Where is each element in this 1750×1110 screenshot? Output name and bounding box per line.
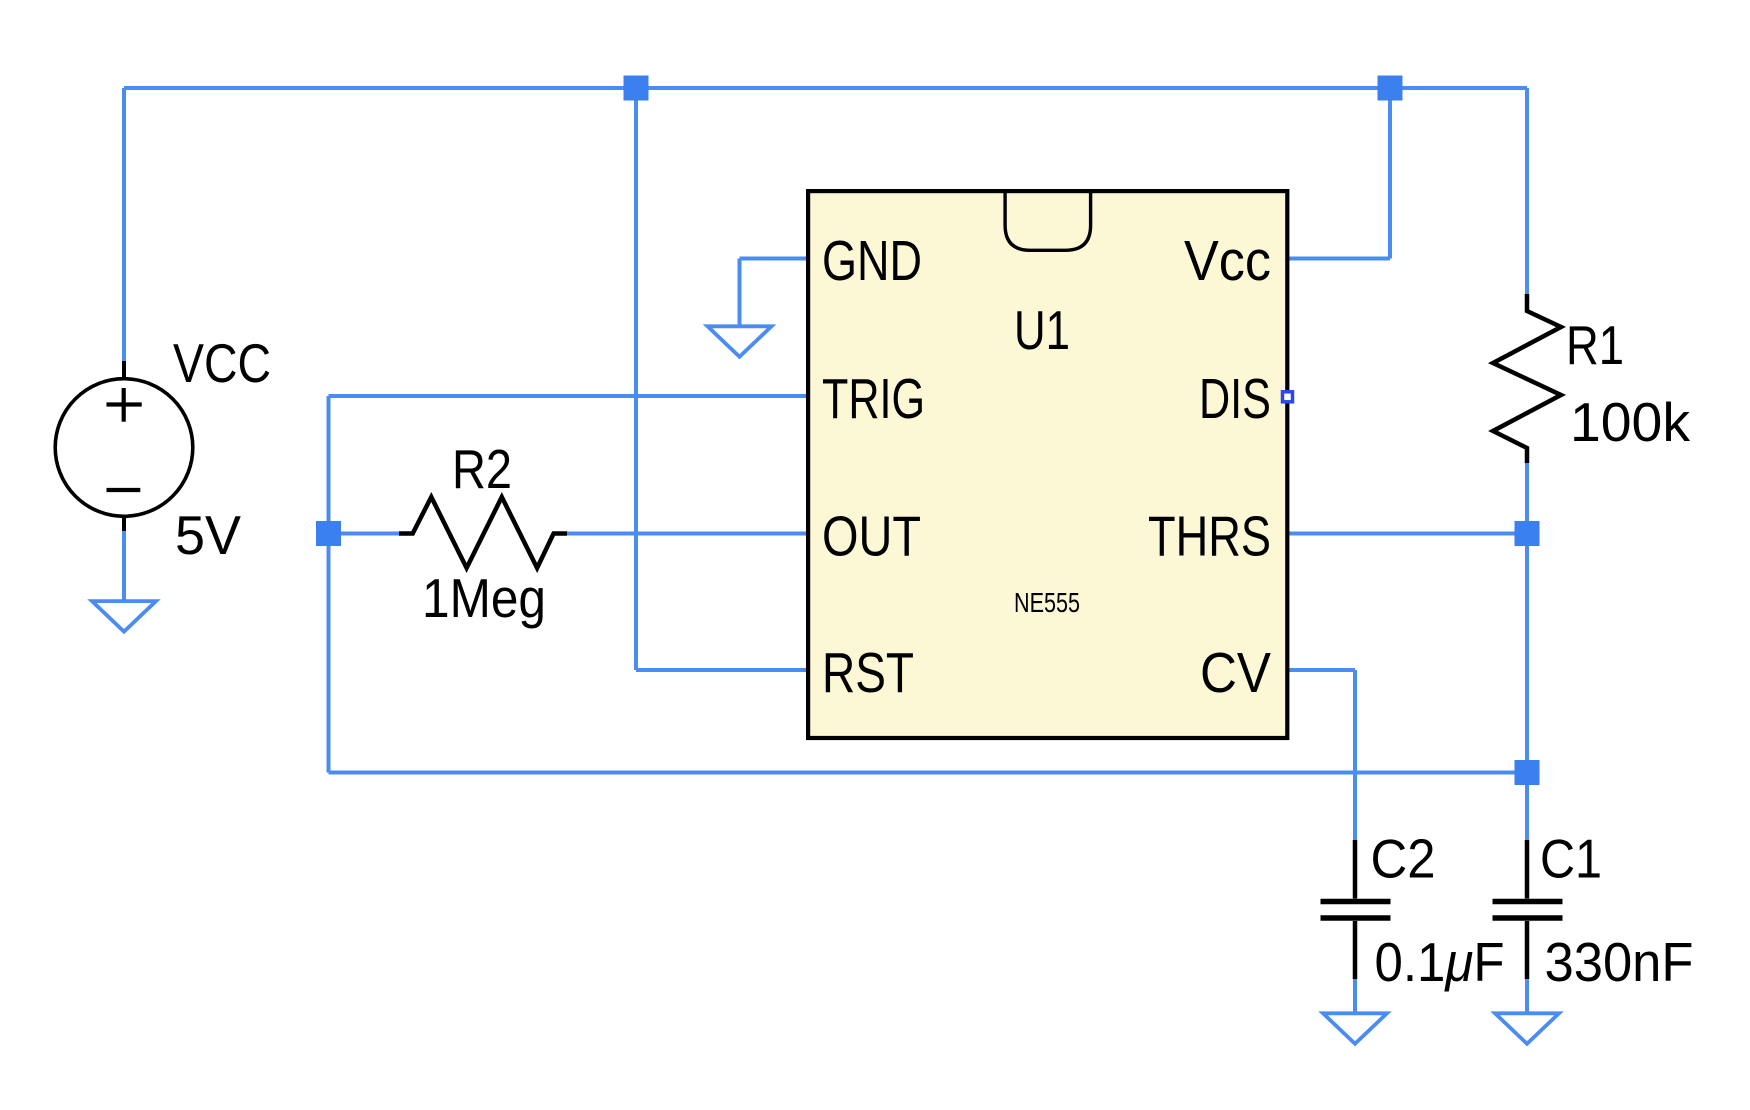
wire Vcc pin horizontal xyxy=(1289,257,1390,261)
svg-text:DIS: DIS xyxy=(1199,367,1271,431)
junction at bottom rail / C1 xyxy=(1515,760,1540,785)
junction at top rail x=636 xyxy=(624,76,649,101)
wire CV down to C2 xyxy=(1353,670,1357,840)
wire C1 to ground xyxy=(1525,978,1529,1012)
svg-text:THRS: THRS xyxy=(1148,505,1271,569)
wire CV pin horizontal xyxy=(1289,668,1355,672)
ground under C1 xyxy=(1495,1013,1559,1044)
svg-text:330nF: 330nF xyxy=(1545,931,1694,993)
wire VCC source bottom to ground xyxy=(122,531,126,600)
voltage source V1 circle xyxy=(55,379,193,517)
junction at top rail x=1390 xyxy=(1378,76,1403,101)
ground under C2 xyxy=(1323,1013,1387,1044)
wire VCC rail drop at x=636 xyxy=(634,88,638,670)
resistor R2 zigzag xyxy=(399,497,567,568)
capacitor C1 leads xyxy=(1525,840,1530,979)
IC notch xyxy=(1005,191,1091,250)
DIS port marker xyxy=(1283,392,1293,402)
wire VCC source top lead up xyxy=(122,88,126,361)
svg-text:Vcc: Vcc xyxy=(1184,229,1271,293)
capacitor C2 plates xyxy=(1321,902,1391,919)
svg-text:R2: R2 xyxy=(452,438,512,500)
wire GND drop to ground symbol xyxy=(738,259,742,325)
minus sign xyxy=(107,488,141,492)
resistor R1 zigzag xyxy=(1493,294,1561,463)
svg-text:1Meg: 1Meg xyxy=(422,567,546,629)
wire R1 bottom to THRS junction xyxy=(1525,463,1529,534)
wire junction to R2 left lead xyxy=(329,532,400,536)
svg-text:NE555: NE555 xyxy=(1014,587,1080,618)
wire Vcc pin up to top rail xyxy=(1388,88,1392,259)
svg-text:100k: 100k xyxy=(1570,391,1691,453)
wire THRS pin horizontal xyxy=(1289,532,1527,536)
junction at OUT/R2 xyxy=(316,521,341,546)
svg-text:5V: 5V xyxy=(175,504,241,566)
wire R2 right lead to OUT pin xyxy=(567,532,806,536)
plus sign xyxy=(107,388,142,422)
svg-text:VCC: VCC xyxy=(173,332,271,394)
wire top rail VCC net xyxy=(124,86,1527,90)
svg-text:GND: GND xyxy=(822,229,922,293)
svg-text:U1: U1 xyxy=(1014,299,1070,361)
capacitor C2 leads xyxy=(1353,840,1358,979)
wire THRS junction down to C1 xyxy=(1525,534,1529,841)
svg-text:C1: C1 xyxy=(1540,828,1602,890)
svg-text:RST: RST xyxy=(822,641,914,705)
wire TRIG pin horizontal xyxy=(329,394,807,398)
junction at THRS/R1 xyxy=(1515,521,1540,546)
ground under VCC source xyxy=(92,601,156,632)
capacitor C1 plates xyxy=(1493,902,1563,919)
wire to RST pin xyxy=(636,668,806,672)
wire bottom rail OUT net xyxy=(329,771,1528,775)
voltage source top lead xyxy=(122,361,126,379)
svg-text:C2: C2 xyxy=(1371,828,1436,890)
svg-text:R1: R1 xyxy=(1566,314,1624,376)
svg-text:TRIG: TRIG xyxy=(822,367,925,431)
voltage source bottom lead xyxy=(122,516,126,531)
wire right vertical down to R1 xyxy=(1525,88,1529,294)
wire C2 to ground xyxy=(1353,978,1357,1012)
IC U1 body xyxy=(808,191,1287,738)
ground near GND pin xyxy=(708,326,772,357)
wire left vertical OUT net xyxy=(327,396,331,773)
svg-text:OUT: OUT xyxy=(822,505,921,569)
svg-text:CV: CV xyxy=(1200,641,1271,705)
wire GND pin horizontal xyxy=(740,257,807,261)
svg-text:0.1μF: 0.1μF xyxy=(1375,931,1505,993)
